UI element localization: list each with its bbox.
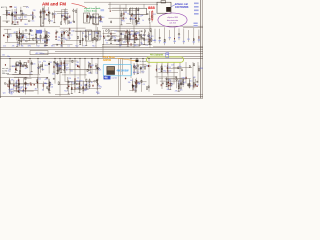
- svg-text:4k7: 4k7: [66, 67, 69, 69]
- svg-text:C31: C31: [57, 66, 60, 68]
- svg-text:1k: 1k: [125, 18, 127, 20]
- svg-text:R12: R12: [37, 45, 40, 47]
- svg-text:386 amp: 386 amp: [2, 73, 9, 75]
- svg-text:33k: 33k: [141, 15, 144, 17]
- svg-text:33k: 33k: [58, 37, 61, 39]
- svg-text:5p6: 5p6: [14, 13, 17, 15]
- svg-text:5p6: 5p6: [3, 93, 6, 95]
- svg-text:IF1: IF1: [58, 40, 60, 42]
- svg-text:signal from both: signal from both: [84, 7, 101, 10]
- svg-text:220: 220: [88, 73, 91, 75]
- svg-text:BF4: BF4: [28, 45, 31, 47]
- svg-text:BF4: BF4: [134, 45, 137, 47]
- svg-text:discriminator: discriminator: [167, 19, 179, 22]
- svg-text:AM 4.5: AM 4.5: [133, 71, 140, 74]
- svg-text:0.1: 0.1: [145, 40, 147, 42]
- svg-text:BF4: BF4: [182, 78, 185, 80]
- svg-text:10n: 10n: [44, 45, 47, 47]
- svg-text:2n2: 2n2: [179, 80, 182, 82]
- svg-text:coil 455: coil 455: [169, 22, 177, 24]
- svg-text:C4: C4: [143, 84, 145, 86]
- svg-text:47k: 47k: [45, 79, 48, 81]
- svg-text:10n: 10n: [36, 38, 39, 40]
- svg-text:100: 100: [44, 83, 47, 85]
- svg-text:4k7: 4k7: [25, 68, 28, 70]
- svg-text:4k7: 4k7: [35, 89, 38, 91]
- svg-text:BF4: BF4: [12, 66, 15, 68]
- svg-text:100: 100: [50, 86, 53, 88]
- svg-text:IF1: IF1: [22, 91, 24, 93]
- svg-text:47k: 47k: [190, 85, 193, 87]
- svg-text:R12: R12: [64, 91, 67, 93]
- svg-text:47k: 47k: [137, 23, 140, 25]
- svg-text:33k: 33k: [52, 73, 55, 75]
- svg-text:220: 220: [33, 64, 36, 66]
- svg-text:5p6: 5p6: [88, 34, 91, 36]
- svg-text:4n dealer: 4n dealer: [140, 61, 148, 63]
- svg-text:T3: T3: [82, 33, 84, 35]
- svg-text:C31: C31: [132, 19, 135, 21]
- svg-text:R12: R12: [141, 71, 144, 73]
- svg-text:C4: C4: [37, 68, 39, 70]
- svg-text:T3: T3: [106, 43, 108, 45]
- svg-text:R8: R8: [14, 86, 16, 88]
- svg-text:C4: C4: [114, 31, 116, 33]
- svg-text:R8: R8: [10, 93, 12, 95]
- svg-text:47k: 47k: [98, 86, 101, 88]
- svg-text:BF4: BF4: [101, 17, 104, 19]
- svg-text:1k: 1k: [10, 35, 12, 37]
- svg-text:47k: 47k: [180, 90, 183, 92]
- svg-text:IF1: IF1: [131, 34, 133, 36]
- svg-text:C4: C4: [70, 22, 72, 24]
- svg-text:L5: L5: [132, 39, 134, 41]
- svg-text:100: 100: [124, 12, 127, 14]
- svg-text:4th Subunit: 4th Subunit: [150, 54, 163, 57]
- svg-text:47k: 47k: [26, 7, 29, 9]
- svg-text:33k: 33k: [21, 45, 24, 47]
- svg-text:carrier: carrier: [112, 78, 118, 80]
- svg-text:L5: L5: [69, 38, 71, 40]
- svg-text:IF1: IF1: [105, 40, 107, 42]
- svg-text:C22: C22: [60, 32, 63, 34]
- svg-text:C22: C22: [26, 84, 29, 86]
- svg-text:10n: 10n: [2, 54, 5, 56]
- svg-text:1k: 1k: [8, 71, 10, 73]
- svg-text:0.1: 0.1: [117, 41, 119, 43]
- svg-text:1k: 1k: [91, 82, 93, 84]
- svg-text:10n: 10n: [121, 20, 124, 22]
- svg-text:47k: 47k: [175, 91, 178, 93]
- svg-text:220: 220: [168, 70, 171, 72]
- svg-text:R12: R12: [15, 83, 18, 85]
- svg-text:10n: 10n: [131, 31, 134, 33]
- svg-text:R8: R8: [17, 45, 19, 47]
- svg-text:wer unit: wer unit: [2, 67, 9, 70]
- svg-text:5p6: 5p6: [61, 15, 64, 17]
- svg-text:AM and FM: AM and FM: [42, 1, 66, 6]
- svg-text:T3: T3: [127, 13, 129, 15]
- svg-text:T3: T3: [83, 45, 85, 47]
- svg-text:C31: C31: [67, 17, 70, 19]
- svg-text:C31: C31: [30, 14, 33, 16]
- svg-text:surface 4mm: surface 4mm: [84, 10, 97, 13]
- svg-text:100: 100: [65, 39, 68, 41]
- svg-text:R12: R12: [75, 45, 78, 47]
- svg-text:C4: C4: [158, 69, 160, 71]
- svg-text:100: 100: [24, 16, 27, 18]
- svg-text:220: 220: [44, 19, 47, 21]
- svg-text:0.1: 0.1: [43, 31, 45, 33]
- svg-text:220: 220: [33, 10, 36, 12]
- svg-text:IF1: IF1: [80, 81, 82, 83]
- svg-text:BF4: BF4: [45, 65, 48, 67]
- svg-text:R12: R12: [92, 45, 95, 47]
- svg-text:L5: L5: [170, 86, 172, 88]
- svg-text:2n2: 2n2: [65, 12, 68, 14]
- svg-text:4k7: 4k7: [130, 80, 133, 82]
- svg-text:C31: C31: [113, 37, 116, 39]
- svg-text:ANT 75: ANT 75: [1, 6, 7, 9]
- svg-text:elliptical FM: elliptical FM: [167, 16, 178, 19]
- svg-text:100/700/868: 100/700/868: [175, 6, 189, 9]
- svg-text:220: 220: [14, 19, 17, 21]
- svg-text:0.1: 0.1: [138, 83, 140, 85]
- svg-text:33k: 33k: [43, 61, 46, 63]
- svg-text:T3: T3: [88, 87, 90, 89]
- svg-text:68p: 68p: [41, 69, 44, 71]
- svg-text:1k: 1k: [42, 90, 44, 92]
- svg-text:AM/SW: AM/SW: [103, 59, 112, 62]
- svg-text:4k7: 4k7: [77, 62, 80, 64]
- svg-text:1k: 1k: [66, 69, 68, 71]
- svg-text:BF4: BF4: [51, 45, 54, 47]
- svg-text:10n: 10n: [70, 71, 73, 73]
- svg-text:0.1: 0.1: [50, 62, 52, 64]
- svg-text:1k: 1k: [23, 39, 25, 41]
- svg-text:4k7: 4k7: [14, 32, 17, 34]
- svg-text:R12: R12: [76, 81, 79, 83]
- svg-text:2n2: 2n2: [31, 35, 34, 37]
- svg-text:2n2: 2n2: [38, 79, 41, 81]
- svg-text:47k: 47k: [11, 80, 14, 82]
- svg-text:AM 455 kc: AM 455 kc: [36, 52, 45, 55]
- svg-text:33k: 33k: [128, 82, 131, 84]
- svg-text:1k: 1k: [77, 78, 79, 80]
- svg-text:C22: C22: [71, 31, 74, 33]
- svg-text:C4: C4: [146, 45, 148, 47]
- svg-text:10n: 10n: [179, 66, 182, 68]
- svg-text:1k: 1k: [48, 33, 50, 35]
- svg-text:T3: T3: [134, 90, 136, 92]
- svg-text:10n: 10n: [55, 64, 58, 66]
- svg-text:C4: C4: [95, 73, 97, 75]
- svg-text:100: 100: [147, 36, 150, 38]
- svg-text:10n: 10n: [7, 56, 10, 58]
- svg-text:47k: 47k: [12, 45, 15, 47]
- svg-text:4k7: 4k7: [183, 82, 186, 84]
- svg-text:IF1: IF1: [167, 89, 169, 91]
- svg-text:220: 220: [99, 36, 102, 38]
- svg-text:BF4: BF4: [200, 68, 203, 70]
- svg-text:L5: L5: [165, 66, 167, 68]
- svg-text:0.1: 0.1: [68, 45, 70, 47]
- svg-text:2n2: 2n2: [3, 45, 6, 47]
- svg-text:T3: T3: [44, 41, 46, 43]
- svg-text:100: 100: [119, 45, 122, 47]
- svg-text:100: 100: [168, 67, 171, 69]
- svg-text:L5: L5: [96, 32, 98, 34]
- svg-text:L5: L5: [30, 73, 32, 75]
- svg-text:R8: R8: [193, 77, 195, 79]
- svg-text:IF1: IF1: [153, 14, 155, 16]
- svg-text:10n: 10n: [32, 21, 35, 23]
- svg-text:L5: L5: [99, 21, 101, 23]
- svg-text:R12: R12: [96, 92, 99, 94]
- svg-text:5p6: 5p6: [54, 14, 57, 16]
- svg-text:0.1: 0.1: [39, 61, 41, 63]
- svg-text:/5W: /5W: [124, 70, 129, 73]
- svg-text:68p: 68p: [130, 18, 133, 20]
- svg-text:L5: L5: [142, 67, 144, 69]
- svg-text:L5: L5: [71, 35, 73, 37]
- svg-text:L5: L5: [87, 83, 89, 85]
- svg-text:1k: 1k: [142, 20, 144, 22]
- svg-text:BF4: BF4: [25, 24, 28, 26]
- svg-text:0.1: 0.1: [51, 21, 53, 23]
- svg-text:C4: C4: [60, 45, 62, 47]
- svg-text:R8: R8: [92, 65, 94, 67]
- svg-text:47k: 47k: [99, 70, 102, 72]
- svg-text:220: 220: [171, 64, 174, 66]
- svg-text:2n2: 2n2: [152, 40, 155, 42]
- svg-text:0.1: 0.1: [33, 16, 35, 18]
- svg-text:0.1: 0.1: [190, 81, 192, 83]
- svg-text:0.1: 0.1: [141, 44, 143, 46]
- svg-text:0.1: 0.1: [46, 10, 48, 12]
- svg-text:888: 888: [148, 5, 155, 10]
